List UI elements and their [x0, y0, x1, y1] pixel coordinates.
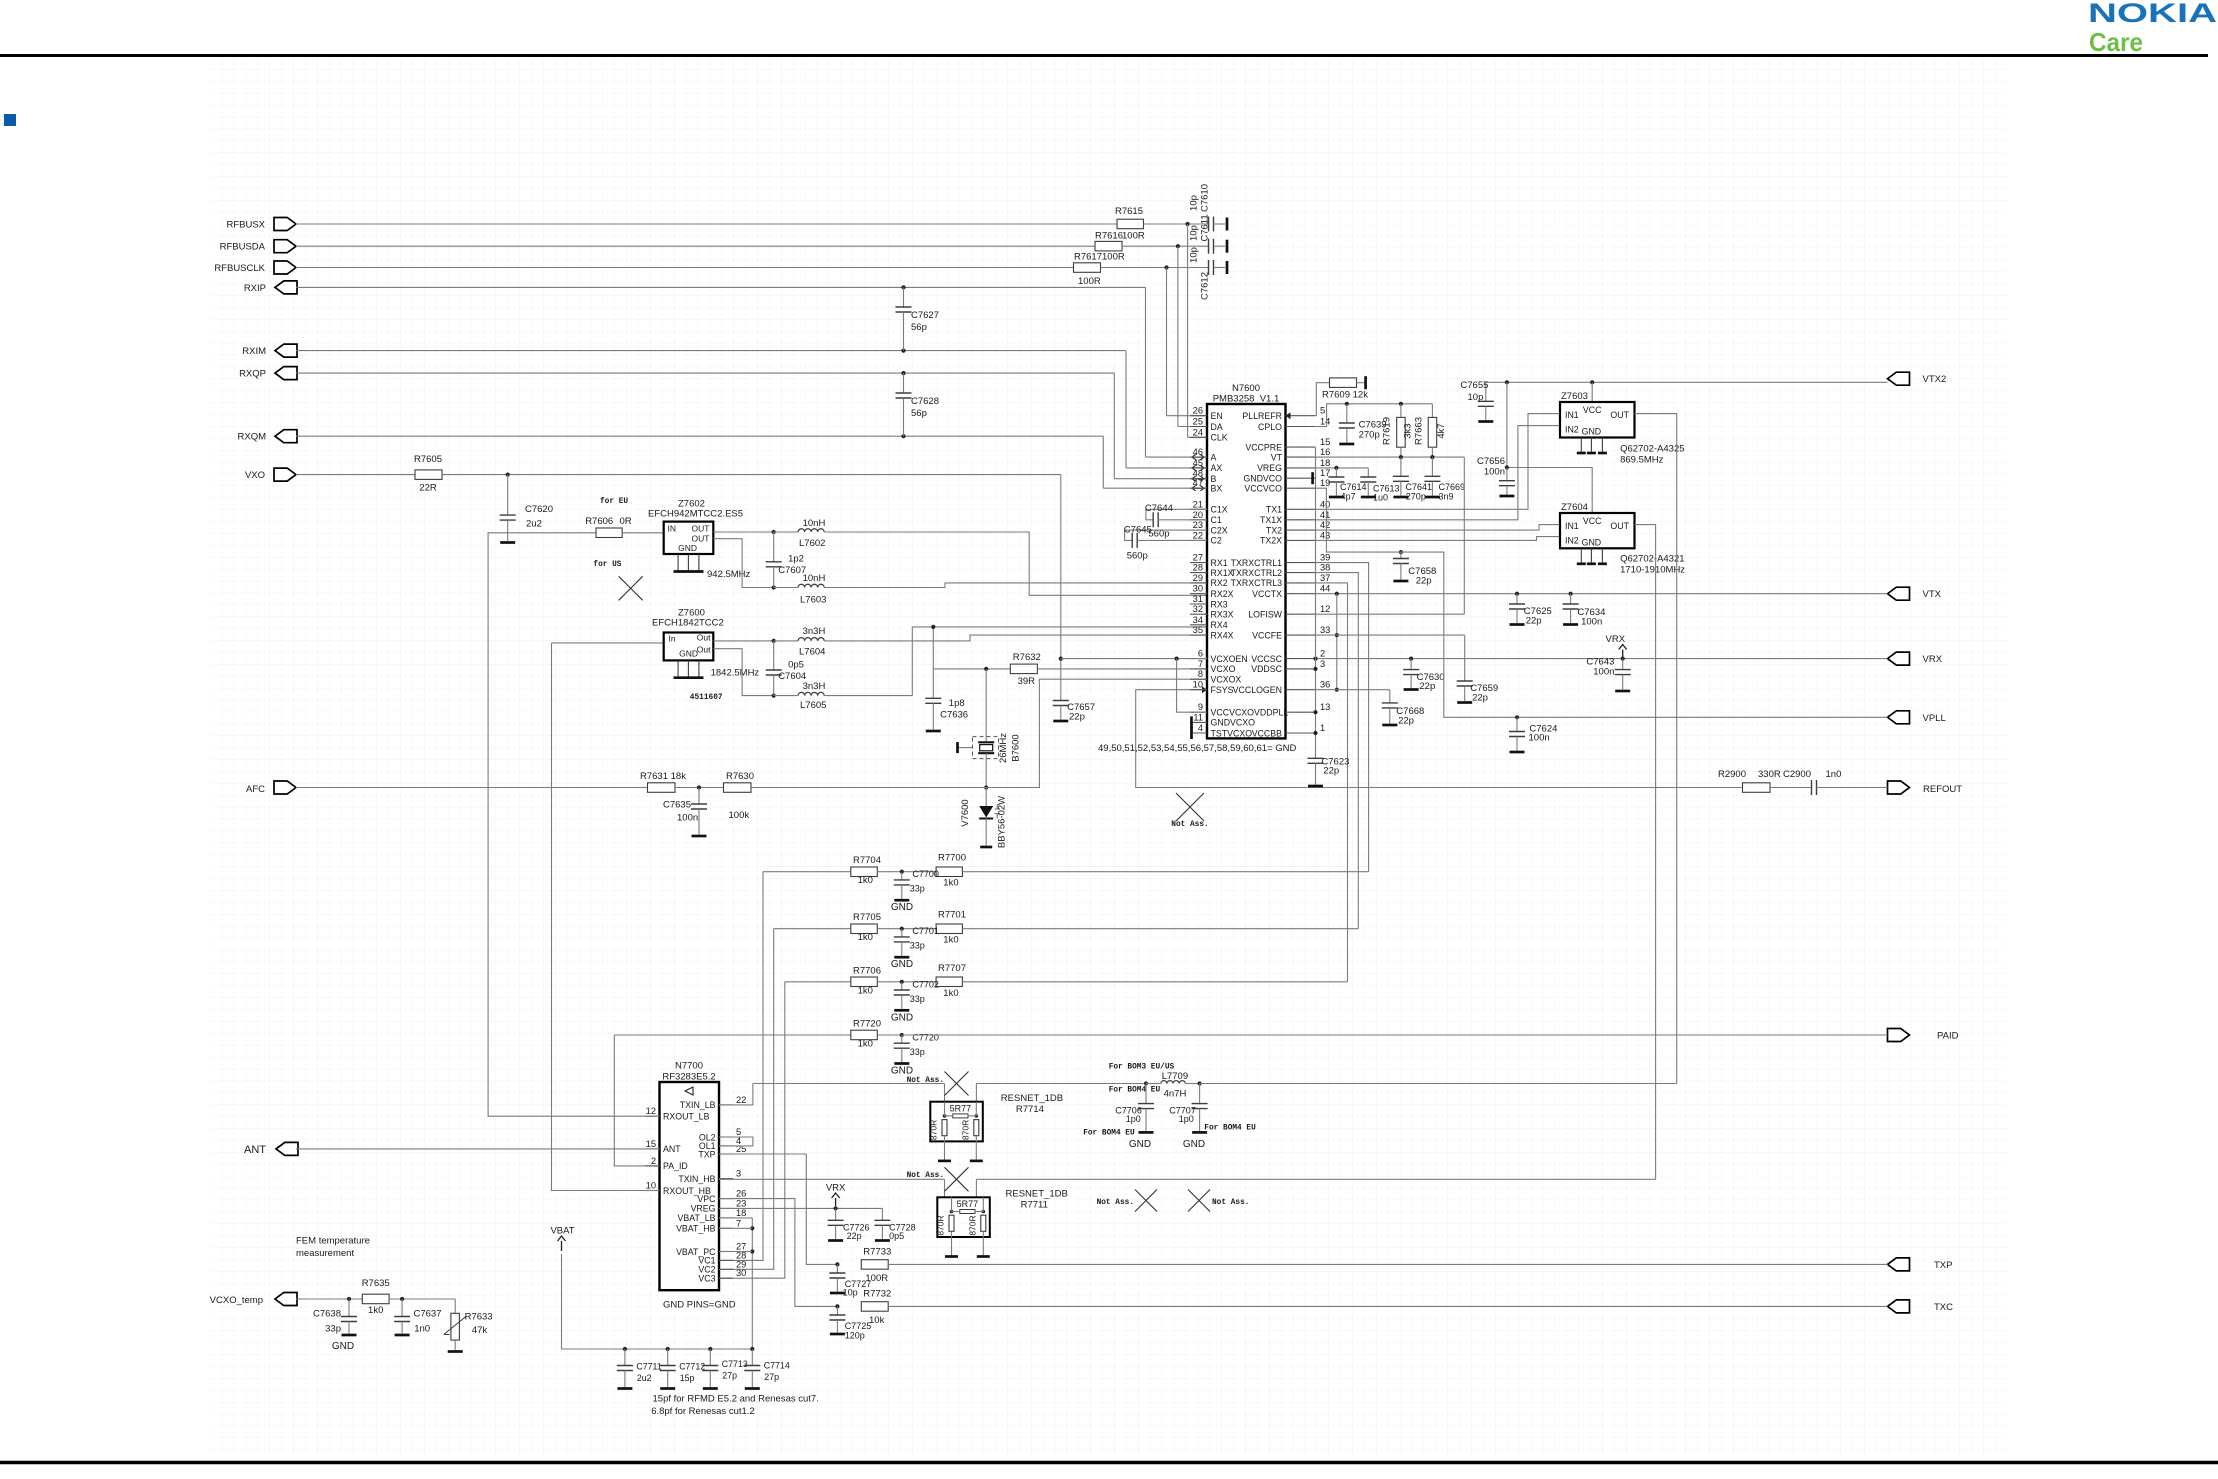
svg-text:GND: GND: [891, 959, 913, 970]
wire VTX2 to Z7603 VCC: [1591, 382, 1593, 402]
svg-text:R7714: R7714: [1016, 1104, 1044, 1115]
wire R7632 to pin VCXO: [1037, 668, 1207, 670]
resistor R7720 1k0: [851, 1030, 878, 1040]
capacitor C7712 15p: [667, 1349, 669, 1366]
N7700 pin 29 VC2: [719, 1268, 733, 1270]
svg-text:VDDSC: VDDSC: [1251, 664, 1282, 674]
svg-text:33p: 33p: [910, 941, 925, 951]
svg-text:120p: 120p: [845, 1331, 865, 1341]
svg-text:26: 26: [1193, 406, 1203, 416]
svg-text:For BOM4 EU: For BOM4 EU: [1083, 1130, 1135, 1138]
svg-text:10nH: 10nH: [803, 518, 826, 529]
attenuator pad R7711 RESNET_1DB: [937, 1197, 990, 1237]
svg-text:5R77: 5R77: [950, 1103, 972, 1113]
svg-text:12: 12: [1320, 604, 1330, 614]
wire VCCFE line: [1315, 634, 1464, 636]
capacitor C7711 2u2: [624, 1349, 626, 1366]
svg-text:27p: 27p: [764, 1372, 779, 1382]
svg-text:33: 33: [1320, 625, 1330, 635]
ground C7636: [926, 730, 941, 733]
R7714 right 870R resistor: [975, 1102, 977, 1116]
svg-text:C7620: C7620: [525, 504, 553, 515]
svg-text:1: 1: [1320, 723, 1325, 733]
svg-text:37: 37: [1320, 573, 1330, 583]
port RXIM: [275, 344, 297, 357]
svg-text:VTX: VTX: [1923, 589, 1942, 600]
junction C7641: [1399, 455, 1403, 459]
svg-text:IN: IN: [668, 524, 677, 534]
svg-text:OUT: OUT: [692, 524, 710, 534]
junction C7604 bottom: [772, 694, 776, 698]
VCC bus vertical: [1336, 594, 1338, 690]
VBAT net arrow: [558, 1236, 566, 1251]
svg-text:VCCPRE: VCCPRE: [1245, 442, 1282, 452]
port VCXO_temp: [275, 1293, 297, 1306]
svg-text:5: 5: [1320, 406, 1325, 416]
svg-text:NOKIA: NOKIA: [2088, 0, 2217, 28]
resistor R7732 10k: [861, 1302, 888, 1312]
svg-text:0R: 0R: [620, 516, 632, 527]
svg-text:VCCBB: VCCBB: [1252, 728, 1282, 738]
attenuator pad R7714 RESNET_1DB: [930, 1102, 983, 1142]
junction RX4 line tap: [931, 625, 935, 629]
svg-text:3: 3: [736, 1169, 741, 1179]
capacitor C7644 560p: [1146, 509, 1207, 520]
resistor R7615: [1117, 219, 1144, 229]
capacitor C7638 33p: [348, 1299, 350, 1317]
junction C7669: [1430, 455, 1434, 459]
N7600 pin 40 TX1: [1286, 508, 1316, 510]
svg-text:REFOUT: REFOUT: [1923, 784, 1962, 795]
wire OL2/OL1 loop: [719, 1137, 753, 1146]
Z7604 ground pins: [1580, 548, 1582, 562]
svg-text:R7617: R7617: [1074, 252, 1102, 263]
N7600 pin 36 VCCLOGEN: [1286, 689, 1316, 691]
wire VCCVCO to VPLL port: [1315, 488, 1887, 717]
junction C7614: [1334, 466, 1338, 470]
junction bus2/VCCBB: [1313, 731, 1317, 735]
wire C7636 riser: [932, 627, 934, 698]
svg-text:6: 6: [1198, 649, 1203, 659]
svg-text:1k0: 1k0: [943, 988, 958, 999]
svg-text:CLK: CLK: [1211, 433, 1228, 443]
wire TXRXCTRL2 down: [1315, 573, 1358, 929]
Z7600 ground pins: [677, 660, 679, 676]
wire TXIN_HB line right: [976, 1178, 1655, 1180]
port RXQM: [275, 430, 297, 443]
svg-text:VC3: VC3: [698, 1274, 715, 1284]
svg-text:16: 16: [1320, 447, 1330, 457]
ground C7624: [1510, 751, 1525, 754]
SAW filter Z7602 EFCH942MTCC2.ES5: [664, 522, 714, 554]
svg-text:44: 44: [1320, 584, 1330, 594]
wire RXOUT_HB up to Z7600: [552, 643, 660, 1191]
wire VC2 riser: [719, 929, 774, 1270]
ground C7720: [894, 1062, 909, 1065]
bus2 vertical pin15 down to C7623: [1315, 447, 1317, 758]
arrow PLLREFR pin: [1286, 412, 1291, 419]
N7600 pin 43 TX2X: [1286, 539, 1316, 541]
svg-text:870R: 870R: [967, 1215, 977, 1235]
svg-text:C7641: C7641: [1406, 482, 1433, 492]
svg-text:VPC: VPC: [697, 1194, 716, 1204]
junction C7634: [1569, 592, 1573, 596]
svg-text:48: 48: [1193, 469, 1203, 479]
svg-text:VRX: VRX: [1923, 654, 1943, 665]
wire RXIP: [296, 286, 1146, 288]
wire risers into resnet R7711: [944, 1179, 946, 1197]
junction C7607 top: [772, 530, 776, 534]
svg-text:TXRXCTRL2: TXRXCTRL2: [1231, 568, 1282, 578]
resistor R7706 1k0: [851, 977, 878, 987]
junction C7643/VRX: [1621, 657, 1625, 661]
svg-text:RX4X: RX4X: [1211, 630, 1234, 640]
svg-text:942.5MHz: 942.5MHz: [707, 569, 751, 580]
RF switch Z7604 Q62702-A4321: [1560, 513, 1635, 548]
svg-text:VBAT_HB: VBAT_HB: [676, 1224, 716, 1234]
wire TX1 to Z7603 IN1: [1315, 414, 1560, 510]
svg-text:R7619: R7619: [1382, 417, 1393, 445]
svg-text:45: 45: [1193, 458, 1203, 468]
capacitor C7641 270p: [1400, 457, 1402, 476]
ground C7727: [830, 1292, 845, 1295]
resistor R2900 330R: [1743, 783, 1771, 793]
svg-text:AX: AX: [1211, 463, 1223, 473]
wire RXQP to pin B: [1113, 373, 1115, 479]
resistor R7700 1k0: [936, 867, 962, 877]
svg-text:R7631 18k: R7631 18k: [640, 771, 686, 782]
svg-text:VCXO: VCXO: [1211, 664, 1236, 674]
wire pin5 to R7609: [1315, 383, 1329, 416]
wire TXIN_LB line left: [753, 1083, 945, 1085]
N7600 pin 4 TSTVCXO: [1190, 732, 1207, 734]
crystal B7600 26MHz: [985, 669, 987, 742]
SAW filter Z7600 EFCH1842TCC2: [664, 633, 714, 661]
svg-text:2: 2: [1320, 649, 1325, 659]
N7600 pin 8 VCXOX: [1190, 678, 1207, 680]
svg-text:1k0: 1k0: [943, 935, 958, 946]
N7600 pin 14 CPLO: [1286, 426, 1316, 428]
port REFOUT: [1888, 781, 1910, 794]
svg-text:C1: C1: [1211, 515, 1222, 525]
svg-text:PA_ID: PA_ID: [663, 1161, 688, 1171]
svg-text:10nH: 10nH: [803, 573, 826, 584]
wire PA_ID riser: [614, 1035, 659, 1166]
N7600 pin 38 TXRXCTRL2: [1286, 572, 1316, 574]
port RFBUSX: [274, 218, 296, 231]
junction C7639 top: [1345, 402, 1349, 406]
svg-text:Z7603: Z7603: [1561, 391, 1588, 402]
capacitor C7636 1p8: [925, 698, 941, 703]
capacitor C7611: [1209, 239, 1214, 254]
N7600 pin 30 RX2X: [1190, 593, 1207, 595]
svg-text:FEM temperature: FEM temperature: [296, 1236, 370, 1247]
wire RXIM: [296, 350, 1126, 352]
svg-text:32: 32: [1193, 604, 1203, 614]
wire R7705 input from VC2: [774, 928, 851, 930]
svg-text:11: 11: [1193, 712, 1203, 722]
svg-text:Z7604: Z7604: [1561, 502, 1588, 513]
terminator bar R7609: [1364, 376, 1367, 389]
svg-text:22p: 22p: [1419, 681, 1435, 692]
ground C7726: [828, 1239, 843, 1242]
ground C7702: [894, 1009, 909, 1012]
junction bus/VCCFE: [1335, 633, 1339, 637]
svg-text:15p: 15p: [680, 1373, 695, 1383]
svg-text:22p: 22p: [1472, 693, 1488, 704]
wire L7603 to pin RX2: [824, 583, 1207, 588]
svg-text:Not Ass.: Not Ass.: [1171, 821, 1208, 829]
svg-text:34: 34: [1193, 615, 1203, 625]
svg-text:3n3H: 3n3H: [803, 626, 826, 637]
svg-text:Out: Out: [697, 645, 711, 655]
ground C7643: [1615, 690, 1630, 693]
wire L7602 to pin RX2X: [824, 532, 1207, 595]
svg-text:B: B: [1211, 474, 1217, 484]
port TXP: [1888, 1258, 1910, 1271]
svg-text:RXIP: RXIP: [244, 283, 266, 294]
svg-text:C7656: C7656: [1477, 456, 1505, 467]
svg-text:C7714: C7714: [764, 1361, 790, 1371]
resistor R7609 12k: [1330, 378, 1357, 388]
svg-text:C7611: C7611: [1200, 214, 1211, 241]
svg-text:VCC: VCC: [1583, 516, 1602, 526]
capacitor C7637 1n0: [401, 1299, 403, 1317]
N7600 pin 26 EN: [1190, 415, 1207, 417]
svg-text:1k0: 1k0: [368, 1305, 383, 1316]
svg-text:56p: 56p: [911, 408, 927, 419]
junction bus2 top: [1313, 657, 1317, 661]
svg-text:VRX: VRX: [826, 1183, 846, 1194]
wire RXOUT_LB to R7606: [488, 532, 597, 534]
junction C7658 tap: [1399, 550, 1403, 554]
junction C7624: [1515, 715, 1519, 719]
wire RFBUSCLK to R7617: [296, 267, 1074, 269]
svg-text:GND: GND: [679, 649, 698, 659]
svg-text:C7610: C7610: [1200, 184, 1211, 212]
svg-text:15: 15: [1320, 437, 1330, 447]
capacitor C7700 33p: [901, 872, 903, 880]
svg-text:L7605: L7605: [800, 700, 826, 711]
svg-text:26MHz: 26MHz: [998, 733, 1009, 763]
N7700 pin 10 RXOUT_HB: [645, 1190, 660, 1192]
N7700 pin 7 VBAT_HB: [719, 1227, 733, 1229]
svg-text:10: 10: [1193, 680, 1203, 690]
wire RXQM: [296, 435, 1103, 437]
svg-text:RX2: RX2: [1211, 578, 1228, 588]
ground C7725: [830, 1333, 845, 1336]
wire into EN pin: [1167, 415, 1208, 417]
N7600 pin 20 C1: [1190, 519, 1207, 521]
svg-text:10: 10: [646, 1181, 656, 1191]
svg-text:10p: 10p: [1189, 225, 1200, 241]
svg-text:N7600: N7600: [1232, 383, 1260, 394]
svg-text:AFC: AFC: [246, 784, 265, 795]
port PAID: [1888, 1029, 1910, 1042]
N7600 pin 18 VREG: [1286, 467, 1316, 469]
junction C7630: [1409, 657, 1413, 661]
svg-text:46: 46: [1193, 447, 1203, 457]
svg-text:47k: 47k: [472, 1325, 488, 1336]
N7600 pin 45 AX: [1190, 467, 1207, 469]
svg-text:7: 7: [1198, 659, 1203, 669]
svg-text:Not Ass.: Not Ass.: [1097, 1199, 1134, 1207]
capacitor C7702 33p: [901, 982, 903, 990]
junction C7702: [900, 980, 904, 984]
wire RXIM to pin AX: [1125, 351, 1127, 468]
capacitor C7657 22p: [1053, 701, 1069, 706]
junction C7700: [900, 870, 904, 874]
ground C7613: [1361, 496, 1376, 499]
svg-text:For BOM4 EU: For BOM4 EU: [1109, 1087, 1161, 1095]
N7700 pin 23 VREG: [719, 1207, 733, 1209]
ground C7620: [500, 541, 515, 544]
capacitor C7655 10p: [1485, 382, 1487, 401]
svg-text:GND: GND: [1582, 538, 1602, 548]
svg-text:C7638: C7638: [313, 1309, 341, 1320]
svg-text:22R: 22R: [419, 483, 437, 494]
junction C7604 top: [772, 639, 776, 643]
junction RXIP/C7627: [901, 285, 905, 289]
N7700 pin 28 VC1: [719, 1259, 733, 1261]
svg-text:IN1: IN1: [1565, 410, 1579, 420]
wire VCCSC to VRX port: [1315, 658, 1887, 660]
junction C7711: [623, 1347, 627, 1351]
svg-text:C7636: C7636: [940, 709, 968, 720]
svg-text:R7616: R7616: [1095, 231, 1123, 242]
svg-text:VCXO_temp: VCXO_temp: [210, 1295, 263, 1306]
svg-text:47: 47: [1193, 478, 1203, 488]
svg-text:27p: 27p: [722, 1371, 737, 1381]
N7600 pin 3 VDDSC: [1286, 668, 1316, 670]
svg-text:22: 22: [1193, 530, 1203, 540]
junction R7619 top: [1399, 402, 1403, 406]
svg-text:330R: 330R: [1758, 769, 1781, 780]
junction C7625: [1515, 592, 1519, 596]
wire TXIN_LB riser: [719, 1084, 753, 1105]
wire TXIN_HB line left: [719, 1178, 945, 1180]
svg-text:RX2X: RX2X: [1211, 589, 1234, 599]
svg-text:R7711: R7711: [1021, 1200, 1048, 1211]
varactor diode V7600 BBY56-02W: [985, 788, 987, 807]
svg-text:4k7: 4k7: [1436, 423, 1447, 438]
svg-text:VCCVCO: VCCVCO: [1244, 484, 1282, 494]
svg-text:31: 31: [1193, 594, 1203, 604]
junction C7620 tap: [506, 473, 510, 477]
wire into DA pin: [1178, 426, 1207, 428]
resistor R7616: [1095, 241, 1122, 251]
junction RFBUSX/CLK wire: [1186, 222, 1190, 226]
svg-text:36: 36: [1320, 680, 1330, 690]
svg-text:1p2: 1p2: [788, 554, 804, 565]
svg-text:C7628: C7628: [911, 396, 939, 407]
svg-text:7: 7: [736, 1218, 741, 1228]
svg-text:4n7H: 4n7H: [1164, 1089, 1187, 1100]
svg-text:FSYS: FSYS: [1211, 685, 1234, 695]
capacitor C2900 1n0: [1812, 780, 1817, 795]
N7600 pin 7 VCXO: [1190, 668, 1207, 670]
svg-text:3k3: 3k3: [1403, 423, 1414, 438]
junction RXIM/C7627: [901, 349, 905, 353]
svg-text:VPLL: VPLL: [1923, 713, 1946, 724]
ground C7668: [1382, 724, 1397, 727]
N7600 pin 39 TXRXCTRL1: [1286, 562, 1316, 564]
svg-text:Not Ass.: Not Ass.: [907, 1172, 944, 1180]
capacitor C7613 1u0: [1367, 468, 1369, 477]
capacitor C7624 100n: [1516, 717, 1518, 731]
capacitor C7630 22p: [1410, 659, 1412, 670]
N7700 pin 15 ANT: [645, 1148, 660, 1150]
svg-text:VCCSC: VCCSC: [1251, 654, 1282, 664]
wire R7701 to TXRXCTRL2: [962, 928, 1358, 930]
svg-text:EN: EN: [1211, 411, 1223, 421]
wire VT line: [1315, 456, 1464, 458]
wire into pin B: [1114, 478, 1207, 480]
wire VCCTX to VTX port: [1315, 593, 1887, 595]
capacitor C7726 22p: [835, 1208, 837, 1220]
svg-text:C7725: C7725: [845, 1321, 872, 1331]
svg-text:for EU: for EU: [600, 498, 628, 506]
N7700 pin 26 VPC: [719, 1198, 733, 1200]
svg-text:1n0: 1n0: [414, 1324, 430, 1335]
svg-text:4: 4: [1198, 723, 1203, 733]
wire R7605 to vertical: [442, 474, 1061, 476]
wire R7635 to R7633: [389, 1298, 455, 1300]
svg-text:TX1X: TX1X: [1260, 515, 1282, 525]
N7600 pin 21 C1X: [1190, 508, 1207, 510]
wire into pin BX: [1103, 487, 1207, 489]
wire Z7604 OUT down to TXIN_HB: [1635, 525, 1656, 1180]
svg-text:C1X: C1X: [1211, 505, 1228, 515]
svg-text:R7706: R7706: [853, 965, 881, 976]
svg-text:R7704: R7704: [853, 855, 881, 866]
wire TX1X to Z7603 IN2: [1315, 426, 1560, 520]
N7600 pin 32 RX3X: [1190, 613, 1207, 615]
bus arrow pin BX: [1192, 487, 1204, 489]
ground C7655: [1478, 420, 1493, 423]
wire Z7600 OUT2: [713, 649, 773, 696]
capacitor C7707 1p0: [1199, 1084, 1201, 1104]
svg-text:IN2: IN2: [1565, 536, 1579, 546]
svg-text:25: 25: [1193, 417, 1203, 427]
svg-text:22p: 22p: [1526, 616, 1542, 627]
wire TXP to R7733 row: [719, 1154, 837, 1264]
svg-text:RFBUSCLK: RFBUSCLK: [214, 263, 265, 274]
N7700 internal triangle marker: [685, 1087, 693, 1095]
resistor R7701 1k0: [936, 924, 962, 934]
wire RFBUSX to CLK pin: [1187, 224, 1189, 437]
svg-text:BX: BX: [1211, 484, 1223, 494]
svg-text:R7606: R7606: [585, 516, 613, 527]
svg-text:10k: 10k: [869, 1315, 885, 1326]
capacitor C7701 33p: [901, 929, 903, 937]
svg-text:28: 28: [1193, 563, 1203, 573]
N7600 pin 44 VCCTX: [1286, 593, 1316, 595]
resistor R7663 4k7 (vertical): [1431, 404, 1433, 418]
svg-text:CPLO: CPLO: [1258, 422, 1282, 432]
svg-text:VCCLOGEN: VCCLOGEN: [1233, 685, 1282, 695]
ground C7659: [1457, 701, 1472, 704]
wire L7605 to pin RX4: [824, 627, 1207, 696]
resistor R7632 39R: [1010, 664, 1037, 674]
port RFBUSCLK: [274, 261, 296, 274]
svg-text:RESNET_1DB: RESNET_1DB: [1001, 1093, 1063, 1104]
capacitor C7628: [903, 373, 905, 393]
junction C7701: [900, 927, 904, 931]
not assembled cross R7714: [945, 1072, 969, 1096]
N7600 pin 23 C2X: [1190, 529, 1207, 531]
N7600 pin 25 DA: [1190, 426, 1207, 428]
